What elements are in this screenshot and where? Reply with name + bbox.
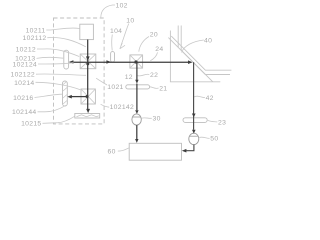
radiator 40 pipe verticals xyxy=(178,26,181,51)
svg-text:24: 24 xyxy=(155,46,163,53)
leader for 1021 xyxy=(96,78,107,85)
condenser outline 40 xyxy=(170,31,220,82)
svg-text:23: 23 xyxy=(218,120,226,127)
arrow left at battery 60 right side xyxy=(182,149,187,153)
svg-text:10212: 10212 xyxy=(16,46,36,53)
leader for 102122 xyxy=(36,74,86,75)
four-way valve square 2 xyxy=(81,89,95,104)
leader for 30 xyxy=(141,117,151,120)
heater capsule 21 xyxy=(126,85,150,89)
svg-text:102112: 102112 xyxy=(23,35,47,42)
leader for 24 xyxy=(150,52,157,61)
arrow right at capsule 104 xyxy=(106,60,111,64)
leader for 20 xyxy=(139,37,149,52)
main horizontal pipe xyxy=(73,61,189,63)
heater capsule 10216 xyxy=(63,81,68,106)
arrow left at heater 10216 xyxy=(67,95,72,99)
heater capsule 23 xyxy=(183,118,207,123)
leader for 102142 xyxy=(101,104,110,107)
valve square 20 xyxy=(130,55,143,68)
battery rectangle 60 xyxy=(129,143,181,160)
svg-text:10215: 10215 xyxy=(21,121,41,128)
svg-text:102122: 102122 xyxy=(11,71,35,78)
svg-text:42: 42 xyxy=(206,95,214,102)
svg-text:30: 30 xyxy=(153,116,161,123)
svg-text:21: 21 xyxy=(159,85,167,92)
svg-text:102: 102 xyxy=(116,3,128,10)
pipe pump 30 to battery 60 xyxy=(136,125,138,139)
arrow down above capsule 21 xyxy=(135,80,138,84)
leader for 40 xyxy=(182,40,204,53)
leader for 10212 xyxy=(37,49,79,57)
radiator 40 diagonal pipes xyxy=(171,36,231,70)
junction dot at valve 20 xyxy=(134,60,137,63)
branch pipe to heater 10216 xyxy=(71,96,87,98)
pump ellipse 30 xyxy=(132,114,141,125)
arrow down at battery 60 xyxy=(135,139,138,143)
svg-text:10216: 10216 xyxy=(13,95,33,102)
sensor capsule 10213 xyxy=(64,50,69,69)
leader for 10216 xyxy=(35,94,63,97)
svg-text:1021: 1021 xyxy=(107,84,123,91)
leader for 21 xyxy=(150,87,159,89)
svg-text:20: 20 xyxy=(150,31,158,38)
leader for 23 xyxy=(208,120,218,122)
leader for 10213 xyxy=(37,57,64,58)
leader for 42 xyxy=(194,96,205,98)
arrow down inside valve 1 xyxy=(86,56,90,61)
leader for 102112 xyxy=(47,37,86,46)
reservoir rectangle 10211 xyxy=(80,24,94,39)
arrow down at pump 50 xyxy=(192,130,196,134)
svg-text:22: 22 xyxy=(150,72,158,79)
arrow down above pump 30 xyxy=(135,110,138,114)
leader for 102 xyxy=(101,5,115,17)
svg-text:10211: 10211 xyxy=(26,27,46,34)
arrow left at capsule 10213 xyxy=(69,60,74,64)
svg-text:60: 60 xyxy=(108,148,116,155)
junction dot below valve 1 xyxy=(86,62,89,65)
svg-text:102142: 102142 xyxy=(110,104,134,111)
arrow down at capsule 23 xyxy=(192,114,196,118)
svg-text:40: 40 xyxy=(204,38,212,45)
svg-text:10214: 10214 xyxy=(14,80,34,87)
leader for 50 xyxy=(199,137,209,138)
svg-text:10: 10 xyxy=(126,17,134,24)
pipe pump 50 to battery 60 xyxy=(186,145,194,151)
leader for 10214 xyxy=(36,82,81,90)
leader for 22 xyxy=(138,74,150,76)
right vertical pipe 42 xyxy=(193,62,195,130)
four-way valve square 1 xyxy=(80,54,96,69)
leader arrow for 10 xyxy=(121,24,129,46)
coolant plate 10215 xyxy=(75,114,100,119)
svg-text:50: 50 xyxy=(210,136,218,143)
sensor capsule 104 xyxy=(111,52,115,62)
leader for 10215 xyxy=(43,116,75,123)
leader for 60 xyxy=(118,148,129,151)
leader for 104 xyxy=(111,35,114,51)
svg-text:12: 12 xyxy=(125,74,133,81)
left vertical pipe xyxy=(87,40,89,110)
leader for 10211 xyxy=(46,28,79,30)
pump ellipse 50 xyxy=(189,133,199,144)
dashed enclosure box 102 xyxy=(54,18,105,124)
junction dot valve 2 xyxy=(86,95,89,98)
svg-text:102144: 102144 xyxy=(12,109,36,116)
svg-text:102124: 102124 xyxy=(13,61,37,68)
middle vertical pipe 22 xyxy=(136,62,138,80)
arrow down at plate 10215 xyxy=(86,109,90,113)
leader for 102144 xyxy=(38,105,66,112)
svg-text:104: 104 xyxy=(110,28,122,35)
pipe through capsule 21 down xyxy=(136,84,138,111)
arrow right at radiator corner xyxy=(188,60,193,64)
leader for 102124 xyxy=(38,63,74,64)
